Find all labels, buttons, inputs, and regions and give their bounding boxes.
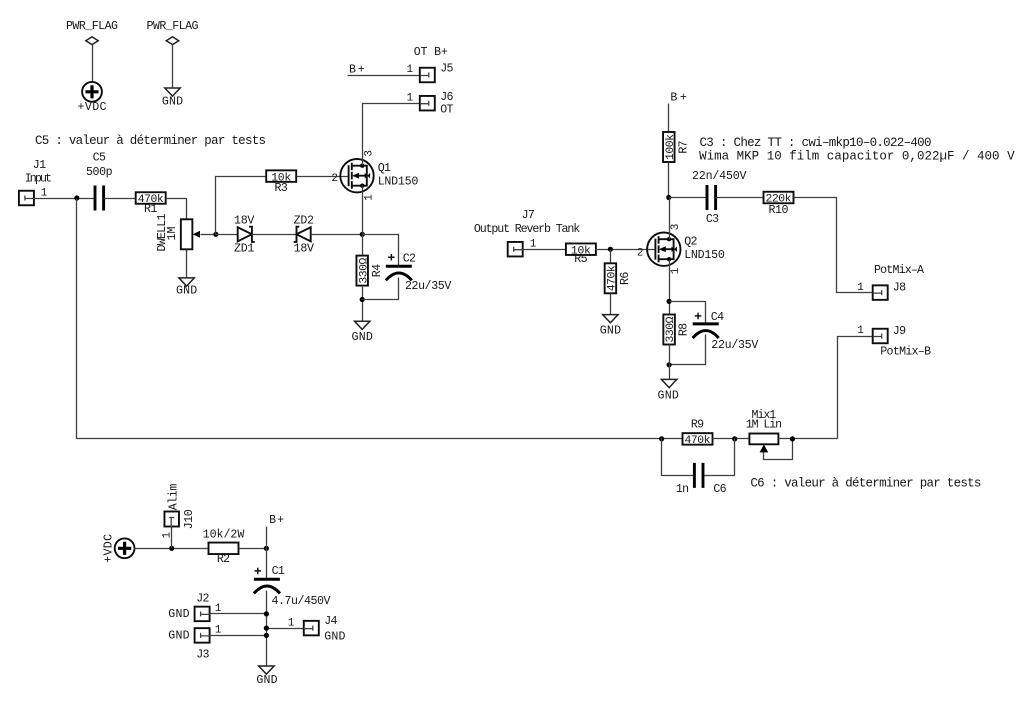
wire drain — [363, 104, 420, 166]
svg-text:LND150: LND150 — [684, 249, 725, 262]
svg-text:C5 : valeur à déterminer par t: C5 : valeur à déterminer par tests — [35, 134, 266, 148]
wire — [669, 197, 708, 199]
wire — [166, 199, 187, 220]
resistor R9 — [683, 419, 713, 448]
wire — [716, 197, 764, 199]
svg-text:J1: J1 — [33, 159, 46, 172]
svg-text:18V: 18V — [294, 243, 314, 256]
svg-text:1: 1 — [857, 325, 864, 337]
junction node B+ — [264, 546, 269, 551]
svg-text:J4: J4 — [324, 615, 337, 628]
svg-text:GND: GND — [162, 96, 183, 109]
svg-text:2: 2 — [637, 247, 644, 259]
svg-text:4.7u/450V: 4.7u/450V — [272, 595, 331, 608]
svg-text:+VDC: +VDC — [103, 534, 116, 563]
junction node R8 bottom — [667, 362, 672, 367]
svg-text:470k: 470k — [685, 435, 711, 447]
capacitor C2 — [386, 253, 452, 294]
svg-text:Output Reverb Tank: Output Reverb Tank — [474, 223, 580, 236]
connector J4 — [288, 615, 346, 643]
svg-text:J6: J6 — [440, 91, 453, 104]
junction node J10 — [169, 546, 174, 551]
svg-text:PWR_FLAG: PWR_FLAG — [147, 20, 199, 33]
resistor R5 — [566, 243, 596, 265]
wire — [171, 527, 173, 549]
connector J6 — [406, 91, 453, 116]
svg-text:GND: GND — [256, 674, 277, 687]
svg-text:GND: GND — [324, 630, 345, 643]
svg-text:C6 : valeur à déterminer par t: C6 : valeur à déterminer par tests — [750, 477, 981, 491]
svg-text:PotMix–B: PotMix–B — [880, 345, 931, 358]
svg-text:100k: 100k — [665, 134, 677, 160]
wire — [713, 438, 750, 440]
svg-text:1: 1 — [363, 194, 375, 201]
svg-text:1: 1 — [215, 625, 222, 637]
svg-text:1: 1 — [857, 282, 864, 294]
svg-text:Q1: Q1 — [378, 162, 391, 175]
svg-text:J9: J9 — [893, 325, 906, 338]
junction node Q2 source — [667, 299, 672, 304]
svg-text:R2: R2 — [217, 553, 230, 566]
junction node J2 — [264, 611, 269, 616]
wire source — [362, 186, 364, 256]
capacitor C6 — [676, 463, 727, 496]
wire — [363, 235, 399, 300]
capacitor C5 — [86, 151, 113, 210]
svg-text:330Ω: 330Ω — [665, 316, 677, 342]
wire — [186, 250, 188, 278]
svg-text:R7: R7 — [677, 140, 690, 153]
svg-text:J8: J8 — [893, 281, 906, 294]
wire — [669, 345, 671, 380]
wire — [216, 177, 267, 235]
ground — [658, 379, 679, 402]
zener diode ZD1 — [234, 215, 255, 256]
junction node Q2 drain — [666, 195, 671, 200]
svg-text:B+: B+ — [670, 91, 687, 104]
wire C6 branch — [662, 439, 735, 476]
svg-text:3: 3 — [670, 224, 682, 231]
power flag PWR_FLAG 1 — [66, 20, 118, 45]
resistor R10 — [764, 192, 794, 217]
svg-text:1: 1 — [530, 238, 537, 250]
wire — [134, 548, 210, 550]
svg-text:R9: R9 — [691, 419, 704, 432]
svg-text:C4: C4 — [711, 311, 724, 324]
connector J1 — [19, 159, 52, 205]
svg-text:500p: 500p — [86, 166, 113, 179]
wire — [210, 635, 267, 637]
wire wiper — [201, 234, 216, 236]
svg-text:10k/2W: 10k/2W — [203, 529, 245, 542]
capacitor C1 — [254, 565, 331, 608]
connector J7 — [474, 209, 580, 256]
svg-text:C5: C5 — [93, 151, 106, 164]
junction node Q1 source — [360, 232, 365, 237]
capacitor C3 — [692, 170, 747, 226]
svg-text:C3: C3 — [706, 213, 719, 226]
svg-text:22u/35V: 22u/35V — [711, 339, 758, 352]
svg-text:1: 1 — [41, 188, 48, 200]
wire — [311, 234, 363, 236]
svg-text:22n/450V: 22n/450V — [692, 170, 747, 183]
resistor R3 — [266, 170, 296, 195]
ground — [256, 666, 277, 687]
ground — [352, 321, 373, 344]
connector J10 — [162, 484, 197, 539]
svg-text:ZD1: ZD1 — [234, 243, 254, 256]
svg-text:C1: C1 — [272, 565, 285, 578]
connector J8 — [857, 264, 924, 300]
svg-text:J7: J7 — [522, 209, 535, 222]
connector J9 — [857, 325, 931, 358]
svg-text:R8: R8 — [678, 323, 691, 336]
svg-text:R6: R6 — [619, 272, 632, 285]
svg-text:PWR_FLAG: PWR_FLAG — [66, 20, 118, 33]
connector J2 — [168, 593, 221, 622]
svg-text:J10: J10 — [183, 509, 196, 529]
svg-text:330Ω: 330Ω — [358, 257, 370, 283]
junction node rail C6 left — [659, 436, 664, 441]
wire — [172, 45, 174, 89]
wire — [610, 250, 612, 264]
ground — [176, 278, 197, 298]
wire — [596, 249, 656, 251]
wire — [794, 198, 873, 293]
svg-text:3: 3 — [363, 150, 375, 157]
wire — [92, 45, 94, 83]
svg-text:OT B+: OT B+ — [414, 46, 448, 59]
wire — [104, 198, 136, 200]
power symbol +VDC bottom — [103, 534, 135, 563]
connector J5 — [406, 62, 453, 82]
junction node Mix1 right — [790, 436, 795, 441]
svg-text:470k: 470k — [607, 265, 619, 291]
junction node wiper — [213, 232, 218, 237]
svg-text:Input: Input — [25, 172, 52, 185]
junction node J3 — [264, 633, 269, 638]
junction node R4 bottom — [360, 297, 365, 302]
svg-text:R4: R4 — [371, 264, 384, 277]
svg-text:ZD2: ZD2 — [294, 215, 314, 228]
wire — [668, 163, 670, 198]
svg-text:22u/35V: 22u/35V — [405, 280, 451, 293]
wire drain — [669, 198, 671, 240]
junction node input — [74, 195, 79, 200]
svg-text:Alim: Alim — [167, 484, 180, 511]
wire — [297, 176, 349, 178]
svg-text:LND150: LND150 — [378, 176, 419, 189]
ground — [162, 88, 183, 109]
svg-text:1n: 1n — [676, 483, 689, 496]
wire — [362, 286, 364, 322]
wire — [779, 438, 838, 440]
svg-text:1M: 1M — [166, 227, 179, 241]
svg-text:2: 2 — [331, 173, 338, 185]
svg-text:GND: GND — [168, 608, 189, 621]
svg-text:GND: GND — [600, 324, 621, 337]
resistor R8 — [663, 315, 690, 345]
power flag PWR_FLAG 2 — [147, 20, 199, 45]
ground — [600, 315, 621, 338]
svg-text:C2: C2 — [403, 253, 416, 266]
svg-text:GND: GND — [352, 331, 373, 344]
connector J3 — [168, 625, 221, 662]
svg-text:GND: GND — [658, 389, 679, 402]
svg-text:R5: R5 — [574, 253, 587, 266]
resistor R7 — [663, 132, 690, 162]
wire — [210, 613, 267, 615]
svg-text:1: 1 — [288, 617, 295, 629]
wire — [670, 302, 706, 365]
wire wiper Mix1 — [764, 439, 793, 460]
wire — [348, 75, 420, 77]
transistor Q1 LND150 — [331, 150, 418, 201]
wire — [267, 628, 304, 630]
svg-text:C3 : Chez TT : cwi–mkp10–0.022: C3 : Chez TT : cwi–mkp10–0.022–400 — [700, 136, 932, 150]
svg-text:B+: B+ — [269, 514, 284, 527]
svg-text:J3: J3 — [196, 649, 209, 662]
svg-text:PotMix–A: PotMix–A — [874, 264, 924, 277]
svg-text:J5: J5 — [440, 62, 453, 75]
transistor Q2 LND150 — [637, 224, 725, 275]
resistor R2 — [203, 529, 245, 567]
potentiometer Mix1 — [746, 409, 782, 453]
junction node R9 right — [732, 436, 737, 441]
wire — [838, 337, 873, 439]
svg-text:J2: J2 — [196, 593, 209, 606]
zener diode ZD2 — [294, 215, 314, 256]
svg-text:R3: R3 — [275, 182, 288, 195]
power symbol +VDC — [78, 82, 107, 114]
svg-text:Q2: Q2 — [684, 236, 697, 249]
wire — [34, 198, 96, 200]
wire — [239, 548, 267, 550]
svg-text:1M Lin: 1M Lin — [746, 419, 782, 432]
svg-text:Wima MKP 10 film capacitor 0,0: Wima MKP 10 film capacitor 0,022µF / 400… — [699, 150, 1015, 164]
wire — [216, 234, 238, 236]
wire long input rail — [77, 199, 683, 439]
wire — [252, 234, 297, 236]
svg-text:18V: 18V — [234, 215, 254, 228]
junction node Q2 gate — [608, 247, 613, 252]
wire — [668, 104, 670, 132]
capacitor C4 — [693, 311, 759, 352]
resistor R4 — [356, 256, 383, 286]
resistor R1 — [136, 192, 166, 216]
resistor R6 — [605, 263, 632, 293]
junction node J4 — [264, 626, 269, 631]
potentiometer DWELL1 — [156, 213, 200, 251]
wire source — [669, 260, 671, 315]
svg-text:GND: GND — [176, 285, 197, 298]
svg-text:GND: GND — [168, 630, 189, 643]
wire — [266, 527, 268, 667]
svg-text:1: 1 — [406, 64, 413, 76]
svg-text:1: 1 — [406, 92, 413, 104]
wire — [523, 249, 567, 251]
svg-text:OT: OT — [440, 103, 453, 116]
svg-text:1: 1 — [670, 267, 682, 274]
svg-text:C6: C6 — [713, 483, 726, 496]
svg-text:B+: B+ — [349, 64, 365, 77]
svg-text:+VDC: +VDC — [78, 101, 107, 114]
wire — [610, 294, 612, 315]
svg-text:R10: R10 — [769, 204, 789, 217]
